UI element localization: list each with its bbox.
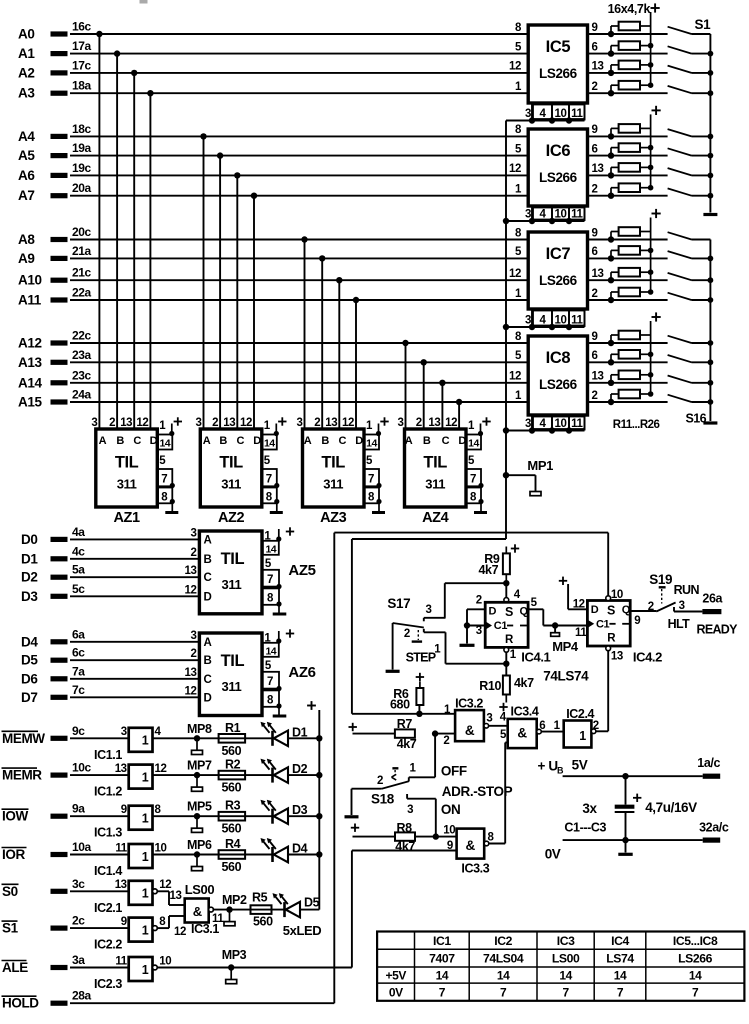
- display AZ2 TIL311: [200, 429, 261, 507]
- svg-text:13: 13: [592, 371, 604, 383]
- svg-text:14: 14: [468, 438, 479, 450]
- svg-text:3: 3: [196, 417, 202, 429]
- svg-text:A11: A11: [18, 293, 42, 308]
- pull-up resistor 4k7 (bank 2, row 1): [610, 128, 612, 136]
- svg-text:8: 8: [515, 124, 522, 136]
- svg-text:11: 11: [115, 842, 127, 854]
- gate IC2.2 buffer: [129, 918, 153, 942]
- svg-text:5: 5: [500, 729, 507, 741]
- svg-text:1: 1: [366, 420, 373, 432]
- svg-text:C: C: [237, 435, 245, 447]
- svg-text:MP6: MP6: [187, 838, 212, 852]
- svg-text:STEP: STEP: [406, 651, 436, 665]
- svg-text:A12: A12: [18, 336, 42, 351]
- wire gate out row 4: [153, 854, 273, 856]
- svg-text:4k7: 4k7: [479, 563, 499, 577]
- svg-text:IOW: IOW: [2, 809, 28, 824]
- wire IC2.4 out to IC4.2 reset: [607, 651, 609, 732]
- svg-text:LS00: LS00: [185, 882, 215, 897]
- switch S9 blade: [668, 232, 692, 239]
- svg-text:3: 3: [476, 625, 482, 637]
- svg-text:7: 7: [439, 986, 446, 1000]
- svg-text:10: 10: [555, 418, 567, 430]
- svg-text:13: 13: [185, 667, 197, 679]
- svg-text:READY: READY: [697, 623, 739, 637]
- wire IOR to gate: [70, 854, 129, 856]
- svg-text:16x4,7k: 16x4,7k: [608, 2, 651, 16]
- svg-text:IC4.2: IC4.2: [633, 650, 662, 665]
- svg-text:2: 2: [191, 547, 197, 559]
- +5V rail of resistor bank 4: [650, 321, 652, 394]
- gate IC2.1 buffer: [129, 881, 153, 905]
- svg-text:311: 311: [425, 477, 445, 492]
- svg-text:11: 11: [571, 315, 583, 327]
- svg-text:A10: A10: [18, 273, 42, 288]
- svg-text:D1: D1: [292, 725, 308, 739]
- svg-text:12: 12: [509, 268, 521, 280]
- pull-up resistor 4k7 (bank 1, row 3): [610, 65, 612, 73]
- wire A0 horizontal to IC5: [70, 33, 529, 35]
- svg-text:20a: 20a: [72, 181, 92, 195]
- svg-text:5: 5: [468, 455, 475, 467]
- svg-text:D1: D1: [21, 551, 38, 566]
- svg-text:IC1.3: IC1.3: [94, 826, 122, 840]
- svg-text:4: 4: [540, 418, 547, 430]
- wire A12 horizontal to IC8: [70, 342, 529, 344]
- wire A1 horizontal to IC5: [70, 53, 529, 55]
- wire gate out row 3: [153, 815, 273, 817]
- comparator IC6 LS266: [528, 129, 587, 206]
- svg-text:9: 9: [592, 227, 598, 239]
- svg-text:7: 7: [692, 986, 699, 1000]
- resistor R1 560: [219, 734, 246, 743]
- svg-text:8: 8: [155, 804, 162, 816]
- svg-text:13: 13: [185, 565, 197, 577]
- AZ5 pins 7,8 to ground: [262, 570, 279, 587]
- svg-text:S1: S1: [695, 17, 712, 32]
- svg-text:A: A: [203, 637, 211, 649]
- svg-text:&: &: [465, 723, 475, 738]
- svg-text:IC3.2: IC3.2: [455, 697, 483, 711]
- svg-text:7c: 7c: [72, 683, 85, 697]
- AZ1 pins 7,8 to ground: [157, 469, 173, 486]
- wire gate out row 2: [153, 774, 273, 776]
- svg-text:MP4: MP4: [552, 639, 579, 654]
- svg-text:12: 12: [509, 163, 521, 175]
- svg-text:6: 6: [592, 246, 598, 258]
- svg-text:19c: 19c: [72, 161, 92, 175]
- svg-text:9: 9: [447, 840, 453, 852]
- svg-text:12: 12: [136, 417, 148, 429]
- svg-text:13: 13: [592, 61, 604, 73]
- svg-text:3: 3: [407, 804, 413, 816]
- svg-text:4: 4: [514, 589, 521, 601]
- svg-text:AZ5: AZ5: [288, 562, 315, 579]
- wire A10 horizontal to IC7: [70, 279, 529, 281]
- wire A3 horizontal to IC5: [70, 92, 529, 94]
- svg-text:311: 311: [117, 477, 137, 492]
- svg-text:A9: A9: [18, 251, 34, 266]
- switch S4 blade: [668, 86, 692, 93]
- svg-text:1: 1: [515, 288, 522, 300]
- svg-text:Q: Q: [622, 604, 631, 616]
- svg-text:1: 1: [142, 887, 149, 901]
- svg-text:D: D: [203, 692, 211, 704]
- resistor R6 680 pull-up: [416, 711, 422, 717]
- svg-text:A1: A1: [18, 46, 35, 61]
- wire ALE to gate: [70, 967, 129, 969]
- svg-text:R: R: [607, 633, 616, 645]
- svg-text:3c: 3c: [72, 877, 85, 891]
- svg-text:2: 2: [648, 601, 654, 613]
- switch S11 blade: [668, 273, 692, 280]
- test point MP6: [194, 851, 200, 857]
- svg-text:311: 311: [222, 679, 242, 694]
- svg-text:A: A: [99, 435, 107, 447]
- svg-text:74LS04: 74LS04: [483, 952, 524, 966]
- svg-text:14: 14: [559, 969, 572, 983]
- display AZ1 TIL311: [96, 429, 158, 507]
- svg-text:2: 2: [443, 735, 449, 747]
- svg-text:6: 6: [592, 143, 598, 155]
- LED D2: [271, 768, 274, 783]
- wire A7 horizontal to IC6: [70, 195, 529, 197]
- svg-text:14: 14: [497, 969, 510, 983]
- svg-text:3: 3: [426, 604, 432, 616]
- svg-text:R2: R2: [225, 758, 241, 772]
- svg-text:2: 2: [592, 184, 598, 196]
- wire A8 horizontal to IC7: [70, 239, 529, 241]
- svg-text:D3: D3: [21, 589, 38, 604]
- svg-text:5c: 5c: [72, 582, 85, 596]
- svg-text:D: D: [458, 435, 466, 447]
- svg-text:5: 5: [515, 350, 522, 362]
- svg-text:8: 8: [515, 227, 522, 239]
- wire IC3.3 out to IC3.4 pin 5: [489, 843, 505, 845]
- svg-text:ALE: ALE: [2, 960, 28, 975]
- ground of rail S9..S16: [703, 421, 717, 424]
- svg-text:3: 3: [398, 417, 404, 429]
- svg-text:A0: A0: [18, 27, 34, 42]
- svg-text:A6: A6: [18, 168, 35, 183]
- svg-text:TIL: TIL: [219, 454, 243, 472]
- svg-text:LS266: LS266: [539, 273, 578, 288]
- wire D5 to display: [70, 659, 201, 661]
- svg-text:A: A: [203, 435, 211, 447]
- switch S16 blade: [668, 395, 692, 402]
- switch S13 blade: [668, 336, 692, 343]
- svg-text:12: 12: [174, 926, 186, 938]
- wire A6 horizontal to IC6: [70, 174, 529, 176]
- switch S8 blade: [668, 188, 692, 195]
- svg-text:2: 2: [592, 81, 598, 93]
- svg-text:1: 1: [142, 734, 149, 748]
- svg-text:6: 6: [592, 41, 598, 53]
- svg-text:IC4.1: IC4.1: [521, 650, 550, 665]
- svg-text:A8: A8: [18, 232, 35, 247]
- svg-text:R: R: [505, 634, 514, 646]
- svg-text:23c: 23c: [72, 368, 92, 382]
- display AZ5 TIL311: [199, 531, 262, 614]
- test point MP4: [552, 622, 558, 628]
- svg-text:R10: R10: [479, 679, 501, 693]
- svg-text:&: &: [466, 838, 476, 853]
- buffer IC2.4: [541, 731, 563, 733]
- wire A3 vertical drop to display: [147, 90, 153, 96]
- resistor R9 4k7: [505, 547, 507, 554]
- resistor R4 560: [219, 850, 246, 859]
- svg-text:9: 9: [592, 22, 598, 34]
- wire A9 horizontal to IC7: [70, 257, 529, 259]
- svg-text:11: 11: [212, 913, 224, 925]
- svg-text:7: 7: [617, 986, 624, 1000]
- svg-text:16c: 16c: [72, 20, 92, 34]
- svg-text:MEMW: MEMW: [2, 731, 45, 746]
- +5V rail of resistor bank 2: [650, 114, 652, 187]
- svg-text:IC7: IC7: [546, 245, 571, 263]
- svg-text:TIL: TIL: [115, 454, 139, 472]
- svg-text:6c: 6c: [72, 646, 85, 660]
- svg-text:5: 5: [366, 455, 373, 467]
- svg-text:11: 11: [575, 627, 587, 639]
- svg-text:2: 2: [592, 390, 598, 402]
- LED D1: [271, 731, 274, 746]
- pull-up resistor 4k7 (bank 3, row 4): [610, 292, 612, 300]
- svg-text:A14: A14: [18, 375, 42, 390]
- svg-text:4: 4: [540, 209, 547, 221]
- svg-text:+ U: + U: [538, 759, 558, 774]
- svg-text:AZ2: AZ2: [218, 510, 245, 526]
- resistor R3 560: [219, 812, 246, 821]
- svg-text:13: 13: [592, 163, 604, 175]
- ground AZ3: [372, 511, 385, 514]
- svg-text:8: 8: [267, 593, 274, 605]
- svg-text:R8: R8: [397, 821, 413, 835]
- svg-text:13: 13: [120, 417, 132, 429]
- comparator IC8 LS266: [528, 336, 587, 415]
- svg-text:1: 1: [410, 763, 417, 775]
- svg-text:11: 11: [571, 209, 583, 221]
- svg-text:IC3.3: IC3.3: [461, 862, 489, 876]
- svg-text:RUN: RUN: [674, 583, 700, 597]
- svg-text:13: 13: [428, 417, 440, 429]
- pull-up resistor 4k7 (bank 4, row 3): [610, 375, 612, 383]
- svg-text:S: S: [607, 603, 615, 617]
- svg-text:6: 6: [539, 720, 545, 732]
- svg-text:+5V: +5V: [386, 969, 407, 983]
- svg-text:&: &: [517, 726, 527, 741]
- svg-text:C: C: [203, 674, 211, 686]
- svg-text:12: 12: [509, 61, 521, 73]
- svg-text:S17: S17: [387, 596, 410, 611]
- svg-text:1: 1: [142, 850, 149, 864]
- wire D0 to display: [70, 538, 201, 540]
- ground 0V: [625, 840, 627, 852]
- wire A12 vertical drop to display: [402, 340, 408, 346]
- svg-text:TIL: TIL: [221, 550, 245, 568]
- svg-text:13: 13: [170, 890, 182, 902]
- svg-text:ON: ON: [441, 802, 460, 817]
- svg-text:2: 2: [212, 417, 218, 429]
- svg-text:D: D: [591, 604, 599, 616]
- LED D5: [283, 902, 286, 917]
- wire IC2.1 out to IC3.1 pin 13: [157, 890, 169, 892]
- wire A11 vertical drop to display: [353, 297, 359, 303]
- svg-text:&: &: [193, 904, 202, 919]
- switch S6 blade: [668, 148, 692, 155]
- svg-text:32a/c: 32a/c: [699, 821, 729, 835]
- display AZ6 TIL311: [199, 633, 262, 716]
- svg-text:5xLED: 5xLED: [283, 923, 321, 938]
- svg-text:1: 1: [142, 963, 149, 977]
- flip-flop IC4.1 74LS74: [504, 598, 509, 603]
- svg-text:19a: 19a: [72, 141, 92, 155]
- svg-text:10: 10: [155, 842, 167, 854]
- svg-text:22c: 22c: [72, 329, 92, 343]
- IC4.2 D pin 12 to +: [559, 580, 567, 582]
- svg-text:A: A: [304, 435, 312, 447]
- svg-text:3: 3: [486, 713, 492, 725]
- svg-text:C: C: [133, 435, 141, 447]
- svg-text:4: 4: [540, 315, 547, 327]
- wire A9 vertical drop to display: [319, 255, 325, 261]
- svg-text:3: 3: [91, 417, 97, 429]
- svg-text:3: 3: [191, 527, 197, 539]
- wire A4 horizontal to IC6: [70, 135, 529, 137]
- ground S17: [392, 623, 394, 670]
- svg-text:13: 13: [115, 879, 127, 891]
- svg-text:13: 13: [115, 763, 127, 775]
- svg-text:5V: 5V: [572, 758, 588, 773]
- svg-text:12: 12: [445, 417, 457, 429]
- svg-text:1: 1: [142, 770, 149, 784]
- svg-text:R11...R26: R11...R26: [613, 419, 660, 431]
- svg-text:TIL: TIL: [221, 652, 245, 670]
- gate IC2.3 buffer: [129, 957, 153, 981]
- svg-text:14: 14: [264, 438, 275, 450]
- svg-text:2: 2: [314, 417, 320, 429]
- svg-text:4: 4: [500, 712, 507, 724]
- svg-text:8: 8: [488, 832, 495, 844]
- svg-text:B: B: [321, 435, 329, 447]
- svg-text:23a: 23a: [72, 348, 92, 362]
- svg-text:560: 560: [222, 781, 242, 795]
- svg-text:TIL: TIL: [321, 454, 345, 472]
- svg-text:2: 2: [191, 648, 197, 660]
- switch S14 blade: [668, 355, 692, 362]
- IC power pin table: [377, 932, 744, 1001]
- svg-text:S: S: [505, 605, 513, 619]
- ground AZ4: [474, 511, 487, 514]
- svg-text:MEMR: MEMR: [2, 768, 42, 783]
- switch S10 blade: [668, 251, 692, 258]
- test point MP3: [228, 964, 234, 970]
- svg-text:S16: S16: [686, 412, 707, 426]
- svg-text:D2: D2: [21, 570, 37, 585]
- svg-text:311: 311: [221, 477, 241, 492]
- svg-text:D: D: [150, 435, 158, 447]
- pull-up resistor 4k7 (bank 4, row 1): [610, 335, 612, 343]
- svg-text:12: 12: [240, 417, 252, 429]
- svg-text:9a: 9a: [72, 802, 85, 816]
- svg-text:8: 8: [515, 22, 522, 34]
- svg-text:6: 6: [592, 350, 598, 362]
- resistor R7 4k7: [432, 730, 438, 736]
- svg-text:28a: 28a: [72, 989, 92, 1003]
- svg-text:R7: R7: [397, 717, 413, 731]
- svg-text:IC8: IC8: [546, 349, 571, 367]
- svg-text:11: 11: [115, 955, 127, 967]
- svg-text:560: 560: [222, 744, 242, 758]
- svg-text:LS74: LS74: [606, 952, 634, 966]
- svg-text:10c: 10c: [72, 761, 92, 775]
- svg-text:1: 1: [264, 420, 271, 432]
- svg-text:IC3.4: IC3.4: [511, 705, 539, 719]
- gate IC1.4 buffer: [129, 844, 153, 868]
- ground AZ6: [273, 715, 287, 718]
- svg-text:12: 12: [185, 584, 197, 596]
- svg-text:1: 1: [510, 649, 517, 661]
- svg-text:LS266: LS266: [678, 952, 713, 966]
- svg-text:3: 3: [297, 417, 303, 429]
- LED D3: [271, 809, 274, 824]
- svg-text:LS266: LS266: [539, 170, 578, 185]
- svg-text:1: 1: [554, 720, 561, 732]
- svg-text:5: 5: [531, 597, 538, 609]
- wire D6 to display: [70, 678, 201, 680]
- wire OFF contact to IC3.2 pin 2: [434, 734, 436, 778]
- svg-text:IC1.1: IC1.1: [94, 748, 122, 762]
- gate IC1.3 buffer: [129, 806, 153, 830]
- wire chain to IC3.2 input: [352, 538, 506, 540]
- svg-text:5: 5: [515, 41, 522, 53]
- svg-text:ADR.-STOP: ADR.-STOP: [442, 784, 513, 799]
- svg-text:R5: R5: [252, 891, 268, 905]
- svg-text:5: 5: [265, 558, 272, 570]
- svg-text:1: 1: [515, 81, 522, 93]
- wire D1 to display: [70, 558, 201, 560]
- svg-text:9c: 9c: [72, 724, 85, 738]
- svg-text:D3: D3: [292, 803, 308, 817]
- svg-text:TIL: TIL: [423, 454, 447, 472]
- svg-text:4k7: 4k7: [397, 737, 417, 751]
- svg-text:B: B: [203, 554, 211, 566]
- svg-text:HOLD: HOLD: [2, 996, 39, 1011]
- svg-text:5: 5: [515, 143, 522, 155]
- pull-up resistor 4k7 (bank 1, row 2): [610, 46, 612, 54]
- svg-text:8: 8: [159, 916, 166, 928]
- svg-text:IC5: IC5: [546, 38, 571, 56]
- gate IC1.2 buffer: [129, 765, 153, 789]
- svg-text:12: 12: [155, 763, 167, 775]
- switch S3 blade: [668, 66, 692, 73]
- svg-text:17c: 17c: [72, 58, 92, 72]
- svg-text:9: 9: [121, 916, 127, 928]
- svg-text:12: 12: [573, 599, 585, 611]
- svg-text:D2: D2: [292, 762, 308, 776]
- svg-text:A: A: [203, 534, 211, 546]
- ground IC4.1 D/C1: [466, 626, 468, 644]
- svg-text:4: 4: [540, 108, 547, 120]
- wire A0 vertical drop to display: [96, 31, 102, 37]
- svg-text:7: 7: [470, 474, 476, 486]
- svg-text:2c: 2c: [72, 914, 85, 928]
- svg-text:2: 2: [593, 720, 599, 732]
- ground AZ2: [270, 511, 283, 514]
- wire MEMR to gate: [70, 774, 129, 776]
- switch S5 blade: [668, 129, 692, 136]
- svg-text:OFF: OFF: [441, 764, 467, 779]
